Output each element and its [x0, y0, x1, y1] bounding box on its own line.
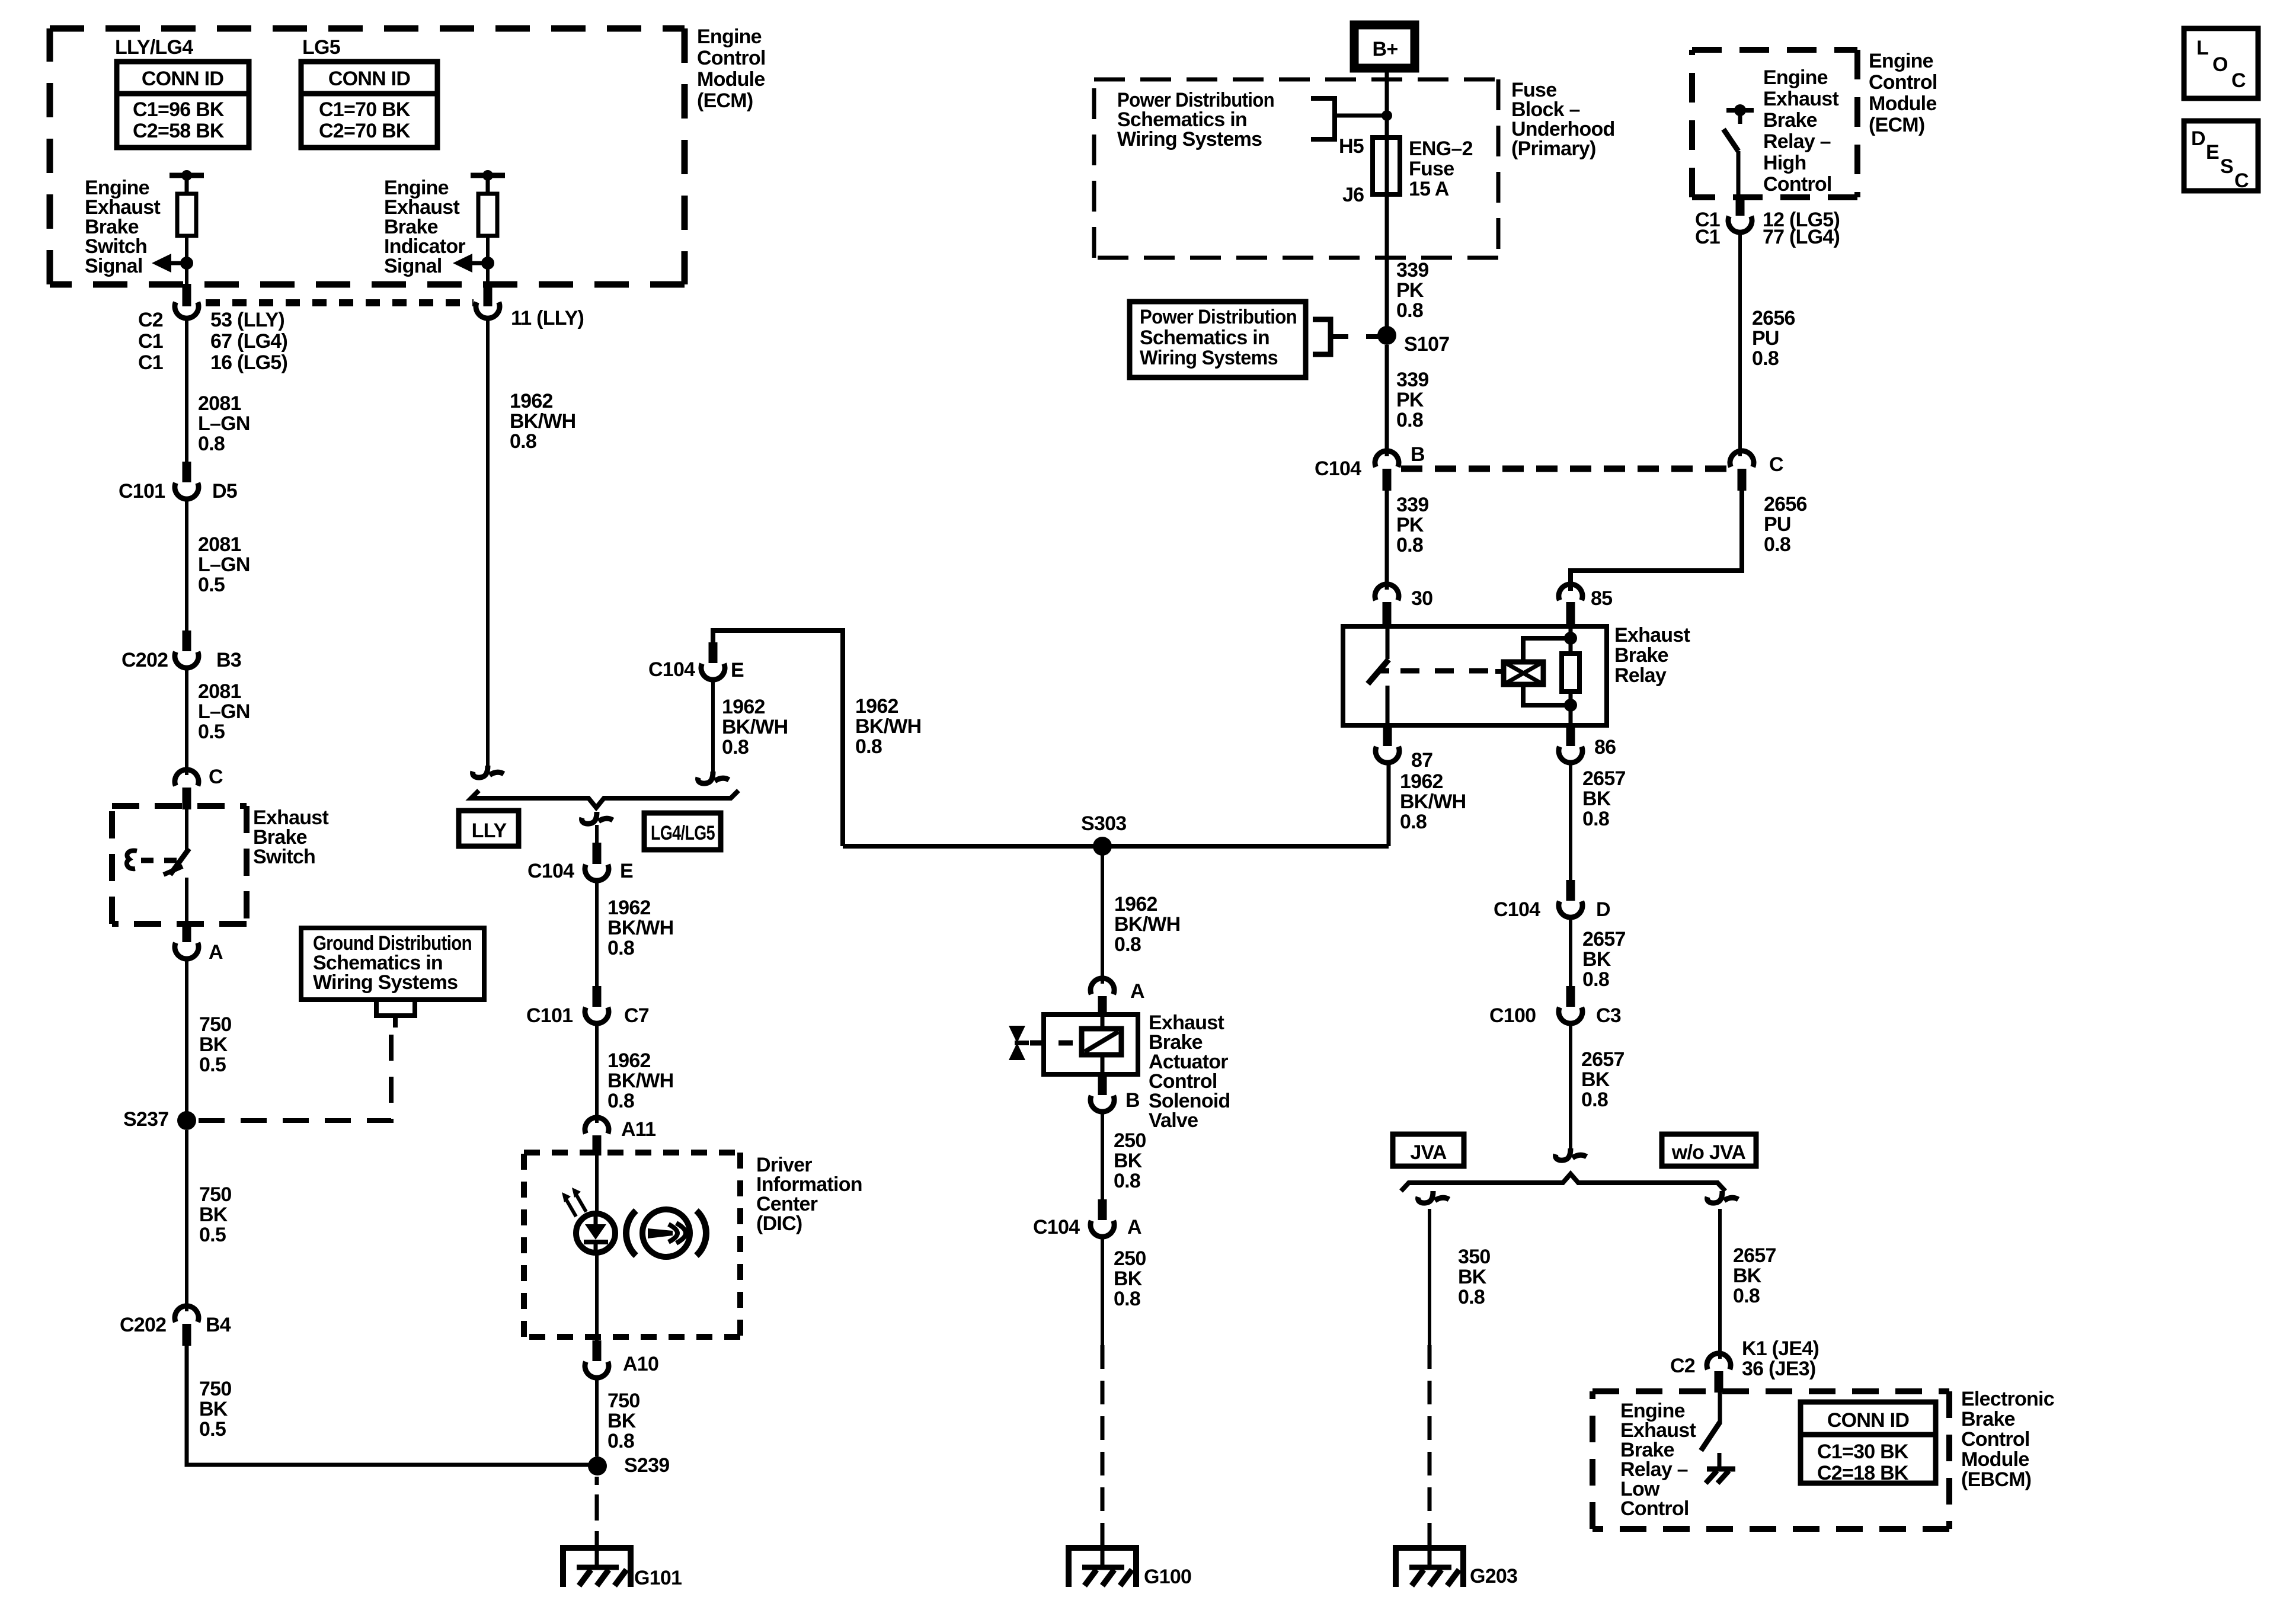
- svg-text:0.8: 0.8: [722, 736, 749, 758]
- svg-text:0.8: 0.8: [1114, 933, 1141, 956]
- split brace (JVA / w-o JVA): [1401, 1174, 1725, 1191]
- label: S107: [1404, 333, 1449, 356]
- connector: C104 pin E (upper): [701, 642, 725, 680]
- label: G203: [1470, 1565, 1517, 1587]
- svg-text:0.8: 0.8: [1581, 1089, 1608, 1111]
- branch wire: w/o JVA 2657 BK 0.8: [1707, 1191, 1738, 1359]
- connector tie line (dotted) between C2 and 11: [206, 299, 474, 306]
- svg-text:(DIC): (DIC): [756, 1212, 802, 1235]
- splice: S107: [1377, 326, 1396, 345]
- connector: C101 pin C7: [585, 986, 609, 1023]
- relay coil parallel loop and resistor: [1523, 626, 1579, 725]
- svg-text:LLY: LLY: [472, 820, 507, 842]
- svg-text:C104: C104: [527, 860, 574, 882]
- label: 2081 L-GN 0.8: [198, 392, 250, 455]
- wire: 1962 BK/WH 0.8 (87 to S303): [1387, 763, 1391, 846]
- svg-text:0.8: 0.8: [1733, 1285, 1760, 1307]
- svg-text:D5: D5: [212, 480, 237, 502]
- svg-text:2081: 2081: [198, 533, 241, 556]
- svg-text:Brake: Brake: [1961, 1408, 2015, 1430]
- svg-text:C: C: [2234, 169, 2249, 192]
- svg-text:1962: 1962: [722, 696, 765, 718]
- svg-text:J6: J6: [1342, 184, 1364, 206]
- wire: 1962 BK/WH 0.8 (11 LLY down to merge): [473, 321, 504, 777]
- svg-text:C202: C202: [121, 649, 168, 671]
- wire: below C104 E (upper) with end hook: [698, 680, 729, 783]
- connector: C104 pin D: [1559, 880, 1582, 917]
- label: Exhaust Brake Relay: [1614, 624, 1690, 687]
- connector: C202 pin B4: [175, 1306, 199, 1346]
- label: 339 PK 0.8: [1396, 259, 1428, 322]
- ground lead to G203 (dashed): [1428, 1345, 1432, 1548]
- svg-text:LG4/LG5: LG4/LG5: [651, 822, 715, 844]
- connector: relay pin 86: [1559, 725, 1582, 763]
- wire inside DIC to LED: [595, 1156, 599, 1340]
- label: H5 / J6: [1339, 135, 1364, 206]
- label: 2081 L-GN 0.5: [198, 533, 250, 596]
- label: 1962 BK/WH 0.8 (E branch): [607, 897, 673, 959]
- branch wire: JVA 350 BK 0.8: [1418, 1191, 1449, 1345]
- wire: indicator signal to ECM connector: [486, 263, 490, 286]
- label: 250 BK 0.8: [1114, 1129, 1146, 1192]
- relay coil (crossed box): [1495, 662, 1543, 684]
- wire: 750 BK 0.8 (A10 to S239): [595, 1378, 599, 1457]
- wire: S303 bus (riser to relay 87): [843, 844, 1389, 849]
- svg-text:Fuse: Fuse: [1409, 158, 1454, 180]
- ground: G203: [1396, 1535, 1463, 1587]
- svg-text:Control: Control: [1961, 1428, 2030, 1451]
- connector: exhaust brake switch pin C: [175, 770, 199, 809]
- svg-text:C2=70 BK: C2=70 BK: [319, 120, 411, 142]
- svg-text:PU: PU: [1752, 327, 1779, 350]
- legend box: DESC: [2184, 121, 2258, 192]
- svg-text:CONN ID: CONN ID: [1827, 1409, 1910, 1432]
- connector: ECM C1/C1 (pins 12/77): [1728, 197, 1752, 232]
- svg-text:Signal: Signal: [384, 255, 442, 277]
- svg-text:0.8: 0.8: [1114, 1170, 1140, 1192]
- svg-text:87: 87: [1411, 749, 1432, 772]
- label: 1962 BK/WH 0.8 (to valve): [1114, 893, 1180, 956]
- svg-text:BK: BK: [199, 1033, 228, 1056]
- svg-text:D: D: [2191, 127, 2205, 150]
- label: 750 BK 0.8: [607, 1390, 639, 1452]
- svg-text:(Primary): (Primary): [1511, 137, 1596, 160]
- label: Engine Control Module (ECM) right: [1869, 50, 1937, 136]
- butterfly valve symbol with linkage: [1009, 1026, 1079, 1060]
- svg-text:BK: BK: [1581, 1068, 1610, 1091]
- ground: G101: [563, 1535, 631, 1587]
- wire: elbow from C104 E (upper) to S303 riser: [713, 630, 843, 846]
- label: 1962 BK/WH 0.8 (to DIC): [607, 1049, 673, 1112]
- label: 86: [1594, 736, 1616, 758]
- label: K1 (JE4) 36 (JE3): [1742, 1337, 1819, 1380]
- svg-text:A: A: [1130, 980, 1144, 1003]
- label: Electronic Brake Control Module (EBCM): [1961, 1388, 2054, 1491]
- svg-text:L–GN: L–GN: [198, 412, 250, 435]
- svg-text:Control: Control: [1869, 71, 1937, 94]
- CONN ID table (EBCM): C1=30 BK, C2=18 BK: [1801, 1402, 1936, 1484]
- tag box: JVA: [1393, 1134, 1464, 1166]
- svg-text:Exhaust: Exhaust: [1614, 624, 1690, 646]
- svg-text:(ECM): (ECM): [1869, 114, 1924, 136]
- svg-text:Brake: Brake: [1763, 109, 1817, 132]
- splice: S303: [1093, 837, 1112, 856]
- splice: S237: [177, 1111, 196, 1130]
- label: 2081 L-GN 0.5 (second): [198, 680, 250, 743]
- svg-text:G100: G100: [1144, 1566, 1191, 1588]
- svg-text:Control: Control: [697, 47, 766, 69]
- svg-text:B: B: [1411, 443, 1425, 466]
- wire: 750 BK 0.5 (S237 to C202 B4): [185, 1130, 188, 1311]
- label: A (valve): [1130, 980, 1144, 1003]
- svg-text:L–GN: L–GN: [198, 700, 250, 723]
- tag box: LLY: [459, 811, 519, 846]
- connector: DIC pin A11: [585, 1118, 609, 1156]
- svg-text:750: 750: [199, 1378, 231, 1400]
- svg-text:BK: BK: [199, 1398, 228, 1420]
- wire: 1962 BK/WH 0.8 (C7 to A11): [595, 1023, 599, 1123]
- svg-text:0.8: 0.8: [1400, 811, 1427, 833]
- svg-text:E: E: [731, 659, 744, 681]
- svg-text:H5: H5: [1339, 135, 1364, 158]
- module: Engine Control Module ECM (left) dashed box: [50, 28, 685, 284]
- svg-text:Wiring Systems: Wiring Systems: [1117, 128, 1262, 151]
- svg-text:C104: C104: [1494, 898, 1540, 921]
- svg-text:A: A: [1127, 1216, 1141, 1238]
- label: Fuse Block - Underhood (Primary): [1511, 79, 1615, 160]
- svg-text:2656: 2656: [1764, 493, 1807, 516]
- svg-text:E: E: [620, 860, 633, 882]
- svg-text:C: C: [1769, 453, 1783, 476]
- wire: 2657 BK 0.8 (C104 D to C100 C3): [1569, 917, 1572, 986]
- label: S239: [624, 1454, 669, 1477]
- svg-text:S303: S303: [1081, 812, 1126, 835]
- svg-text:2657: 2657: [1582, 767, 1626, 790]
- svg-text:0.8: 0.8: [607, 1430, 634, 1452]
- indicator LED (exhaust brake telltale lamp): [562, 1188, 615, 1253]
- svg-text:CONN ID: CONN ID: [328, 68, 411, 90]
- label: Engine Exhaust Brake Relay - High Control: [1763, 66, 1838, 196]
- tag box: LG4/LG5: [644, 813, 721, 850]
- label: Engine Exhaust Brake Indicator Signal: [384, 177, 465, 277]
- svg-text:Exhaust: Exhaust: [1763, 88, 1838, 110]
- label: 2656 PU 0.8 (second): [1764, 493, 1807, 556]
- connector: C202 pin B3: [175, 630, 199, 668]
- wire: 2081 L-GN 0.5 (C202 to switch): [185, 668, 188, 775]
- wire: 2081 L-GN 0.8 (C2 to C101): [185, 321, 188, 462]
- module: Engine Control Module ECM (right) dashed box: [1692, 50, 1857, 197]
- svg-text:BK/WH: BK/WH: [607, 917, 673, 939]
- svg-text:BK: BK: [1458, 1266, 1487, 1288]
- svg-text:LLY/LG4: LLY/LG4: [115, 36, 193, 59]
- svg-text:C1=96 BK: C1=96 BK: [133, 98, 225, 121]
- svg-text:0.5: 0.5: [199, 1054, 226, 1076]
- svg-text:C1: C1: [138, 351, 163, 374]
- label: 339 PK 0.8 (third): [1396, 494, 1428, 556]
- bracket under ground distribution box: [376, 1001, 415, 1028]
- svg-text:Power Distribution: Power Distribution: [1140, 306, 1297, 328]
- svg-text:BK/WH: BK/WH: [855, 715, 921, 738]
- label: G101: [634, 1567, 682, 1589]
- connector: DIC pin A10: [585, 1340, 609, 1378]
- svg-text:C1=70 BK: C1=70 BK: [319, 98, 411, 121]
- tag box: w/o JVA: [1662, 1134, 1756, 1166]
- label: 2657 BK 0.8 (86): [1582, 767, 1626, 830]
- wire: 1962 BK/WH 0.8 (S303 to valve pin A): [1101, 846, 1104, 984]
- solenoid coil symbol: [1082, 1014, 1121, 1074]
- label: B (valve): [1125, 1089, 1140, 1112]
- connector: C104 pin E (lower): [582, 812, 613, 881]
- svg-text:Relay: Relay: [1614, 664, 1667, 687]
- label: 87: [1411, 749, 1432, 772]
- svg-text:C7: C7: [624, 1004, 649, 1027]
- svg-text:339: 339: [1396, 494, 1428, 516]
- fuse: H5/J6 ENG-2 Fuse 15 A: [1373, 137, 1400, 194]
- svg-text:0.8: 0.8: [607, 1090, 634, 1112]
- svg-text:Module: Module: [1961, 1448, 2029, 1471]
- svg-text:BK: BK: [607, 1410, 637, 1432]
- svg-text:PK: PK: [1396, 389, 1424, 411]
- svg-text:PK: PK: [1396, 279, 1424, 302]
- svg-text:1962: 1962: [1114, 893, 1157, 916]
- label: Exhaust Brake Switch: [253, 806, 328, 868]
- svg-text:S107: S107: [1404, 333, 1449, 356]
- label: C104 / D: [1494, 898, 1610, 921]
- svg-text:PK: PK: [1396, 514, 1424, 536]
- svg-text:PU: PU: [1764, 513, 1791, 536]
- label: S237: [123, 1108, 168, 1131]
- svg-text:2081: 2081: [198, 392, 241, 415]
- svg-text:750: 750: [607, 1390, 639, 1412]
- svg-text:BK/WH: BK/WH: [1114, 913, 1180, 936]
- CONN ID table (LLY/LG4): C1=96 BK, C2=58 BK: [117, 62, 249, 148]
- label: C (C104): [1769, 453, 1783, 476]
- label: C101 / C7: [526, 1004, 649, 1027]
- svg-text:A: A: [209, 941, 223, 964]
- svg-text:(EBCM): (EBCM): [1961, 1468, 2031, 1491]
- svg-text:BK: BK: [1114, 1267, 1143, 1290]
- svg-text:Engine: Engine: [1763, 66, 1828, 89]
- connector: valve pin B: [1091, 1074, 1114, 1112]
- svg-text:53 (LLY): 53 (LLY): [210, 309, 284, 331]
- module: Electronic Brake Control Module dashed box: [1593, 1391, 1949, 1529]
- svg-text:0.8: 0.8: [1396, 534, 1423, 556]
- EBCM internal switch to ground: [1701, 1393, 1735, 1483]
- label: C104 / A: [1033, 1216, 1141, 1238]
- label: C: [209, 766, 223, 788]
- connector: valve pin A: [1091, 978, 1114, 1016]
- switch blade (exhaust brake switch): [164, 809, 189, 924]
- svg-text:Control: Control: [1620, 1497, 1689, 1520]
- module: Driver Information Center dashed box: [524, 1153, 740, 1337]
- label: S303: [1081, 812, 1126, 835]
- label: Driver Information Center (DIC): [756, 1154, 862, 1235]
- label: C2 C1 C1: [138, 309, 163, 374]
- wire: 2081 L-GN 0.5 (C101 to C202): [185, 499, 188, 630]
- svg-text:11 (LLY): 11 (LLY): [511, 307, 584, 329]
- label: Engine Exhaust Brake Switch Signal: [85, 177, 160, 277]
- signal arrow: engine exhaust brake switch signal: [152, 254, 193, 273]
- connector: C101 pin D5: [175, 462, 199, 499]
- svg-text:Valve: Valve: [1149, 1109, 1198, 1132]
- svg-text:D: D: [1596, 898, 1610, 921]
- reference: Power Distribution Schematics in Wiring Systems (fuse block): [1117, 89, 1392, 151]
- svg-text:0.8: 0.8: [1764, 533, 1790, 556]
- telltale symbol: exhaust brake indicator in parentheses: [626, 1209, 706, 1257]
- connector: exhaust brake switch pin A: [175, 921, 199, 959]
- svg-text:BK/WH: BK/WH: [607, 1070, 673, 1092]
- svg-text:G203: G203: [1470, 1565, 1517, 1587]
- svg-text:Switch: Switch: [253, 846, 315, 868]
- splice: S239: [588, 1457, 607, 1475]
- svg-text:0.8: 0.8: [855, 735, 882, 758]
- label: C202 / B4: [120, 1314, 231, 1336]
- svg-text:0.8: 0.8: [510, 430, 536, 453]
- label: 2657 BK 0.8 (D): [1582, 928, 1626, 991]
- reference box: Power Distribution Schematics in Wiring Systems (S107): [1130, 302, 1381, 377]
- svg-text:350: 350: [1458, 1246, 1490, 1268]
- connector: relay pin 85: [1559, 584, 1582, 626]
- label: 12 (LG5) 77 (LG4): [1763, 209, 1840, 248]
- svg-text:1962: 1962: [510, 390, 553, 412]
- svg-text:High: High: [1763, 152, 1806, 174]
- svg-text:C104: C104: [1033, 1216, 1080, 1238]
- svg-text:86: 86: [1594, 736, 1616, 758]
- svg-text:16 (LG5): 16 (LG5): [210, 351, 287, 374]
- svg-text:C101: C101: [526, 1004, 573, 1027]
- label: 1962 BK/WH 0.8 (LLY branch): [510, 390, 575, 453]
- label: 1962 BK/WH 0.8 (riser): [855, 695, 921, 758]
- svg-text:S239: S239: [624, 1454, 669, 1477]
- svg-text:B3: B3: [216, 649, 241, 671]
- svg-text:0.5: 0.5: [198, 721, 225, 743]
- svg-text:Brake: Brake: [1614, 644, 1668, 667]
- signal arrow: engine exhaust brake indicator signal: [453, 254, 494, 273]
- dashed reference lead from S237 to ground distribution bracket: [199, 1028, 391, 1121]
- label: 350 BK 0.8: [1458, 1246, 1490, 1308]
- wire: 339 PK 0.8 (S107 to C104 B): [1385, 345, 1389, 456]
- relay linkage dashes: [1400, 668, 1495, 674]
- wire: 750 BK 0.5 (A to S237): [185, 959, 188, 1121]
- svg-text:C104: C104: [648, 658, 695, 681]
- resistor: engine exhaust brake switch signal driver (ECM internal): [170, 170, 204, 263]
- svg-text:67 (LG4): 67 (LG4): [210, 330, 287, 353]
- label: C104 / E (lower): [527, 860, 633, 882]
- ground lead to G100 (dashed): [1101, 1345, 1105, 1548]
- svg-text:750: 750: [199, 1183, 231, 1206]
- svg-text:0.8: 0.8: [1396, 409, 1423, 431]
- legend box: LOC: [2184, 28, 2258, 98]
- svg-text:B: B: [1125, 1089, 1140, 1112]
- label: 11 (LLY): [511, 307, 584, 329]
- svg-text:0.5: 0.5: [199, 1224, 226, 1246]
- svg-text:0.5: 0.5: [199, 1418, 226, 1441]
- wire: 250 BK 0.8 (B to C104 A): [1101, 1112, 1104, 1199]
- module: Fuse Block Underhood dashed box: [1094, 79, 1498, 258]
- svg-text:BK: BK: [1114, 1150, 1143, 1172]
- svg-text:Schematics in: Schematics in: [1140, 327, 1269, 349]
- driver: engine exhaust brake relay high control (ECM internal switch): [1723, 104, 1754, 197]
- svg-text:S237: S237: [123, 1108, 168, 1131]
- svg-text:1962: 1962: [1400, 770, 1443, 793]
- wire: 339 PK 0.8 (fuse to S107): [1385, 194, 1389, 335]
- wire: 2657 BK 0.8 (C3 down to split): [1556, 1023, 1587, 1160]
- connector: 11 (LLY) at ECM: [476, 284, 500, 318]
- connector: relay pin 87: [1376, 725, 1399, 763]
- battery feed terminal B+: [1354, 25, 1415, 68]
- svg-text:S: S: [2220, 155, 2233, 178]
- label: 750 BK 0.5 (second): [199, 1183, 231, 1246]
- label: 250 BK 0.8 (second): [1114, 1247, 1146, 1310]
- label: ENG-2 Fuse 15 A: [1409, 137, 1473, 200]
- svg-text:C: C: [2231, 69, 2246, 92]
- connector: EBCM C2 (pin K1/36): [1707, 1353, 1731, 1393]
- connector: C2/C1/C1 at ECM (pin 53/67/16): [175, 284, 199, 318]
- label: C101 / D5: [119, 480, 237, 502]
- svg-text:Engine: Engine: [1869, 50, 1933, 72]
- label: LLY/LG4: [115, 36, 193, 59]
- svg-text:2081: 2081: [198, 680, 241, 703]
- svg-text:ENG–2: ENG–2: [1409, 137, 1473, 160]
- svg-text:C101: C101: [119, 480, 165, 502]
- label: C2: [1670, 1355, 1695, 1377]
- svg-text:2657: 2657: [1582, 928, 1626, 950]
- svg-text:B4: B4: [206, 1314, 231, 1336]
- svg-text:0.8: 0.8: [1396, 299, 1423, 322]
- svg-text:0.8: 0.8: [1458, 1286, 1485, 1308]
- connector: C100 pin C3: [1559, 986, 1582, 1023]
- svg-text:1962: 1962: [607, 1049, 651, 1072]
- label: A10: [623, 1353, 658, 1375]
- svg-text:C2: C2: [138, 309, 163, 331]
- svg-text:C2=58 BK: C2=58 BK: [133, 120, 225, 142]
- svg-text:0.5: 0.5: [198, 574, 225, 596]
- wire: 339 PK 0.8 (C104 B to relay 30): [1385, 491, 1389, 590]
- svg-text:339: 339: [1396, 369, 1428, 391]
- label: 1962 BK/WH 0.8 (87): [1400, 770, 1466, 833]
- wire: 2657 BK 0.8 (86 to C104 D): [1569, 763, 1572, 880]
- wire: 2656 PU 0.8 (C1 to C104 C): [1738, 232, 1742, 456]
- label: 2657 BK 0.8 (C3): [1581, 1048, 1625, 1111]
- svg-text:0.8: 0.8: [1114, 1288, 1140, 1310]
- label: Engine Control Module (ECM) left: [697, 25, 766, 112]
- dashed connector line C104 B to C: [1401, 466, 1727, 472]
- svg-text:C1: C1: [1695, 226, 1720, 248]
- label: 2657 BK 0.8 (w/o JVA): [1733, 1244, 1776, 1307]
- svg-text:2657: 2657: [1733, 1244, 1776, 1267]
- connector: C104 pin A: [1091, 1199, 1114, 1237]
- svg-text:Electronic: Electronic: [1961, 1388, 2054, 1410]
- reference box: Ground Distribution Schematics in Wiring Systems: [301, 928, 484, 1000]
- label: C1 C1: [1695, 209, 1720, 248]
- switch detent hook and linkage dashes: [127, 850, 178, 869]
- resistor: engine exhaust brake indicator signal driver (ECM internal): [471, 170, 505, 263]
- svg-text:0.8: 0.8: [1582, 808, 1609, 830]
- svg-text:CONN ID: CONN ID: [142, 68, 224, 90]
- svg-text:Wiring Systems: Wiring Systems: [1140, 347, 1278, 369]
- relay switch contact: [1368, 626, 1389, 725]
- ground lead: S239 to G101 (dashed): [595, 1477, 599, 1548]
- svg-text:L: L: [2196, 37, 2208, 59]
- svg-text:2657: 2657: [1581, 1048, 1625, 1071]
- label: A11: [621, 1118, 655, 1141]
- svg-text:A10: A10: [623, 1353, 658, 1375]
- label: G100: [1144, 1566, 1191, 1588]
- CONN ID table (LG5): C1=70 BK, C2=70 BK: [301, 62, 437, 148]
- component: Exhaust Brake Actuator Control Solenoid Valve box: [1044, 1014, 1138, 1074]
- component: Exhaust Brake Relay box: [1343, 626, 1607, 725]
- label: 2656 PU 0.8: [1752, 307, 1795, 370]
